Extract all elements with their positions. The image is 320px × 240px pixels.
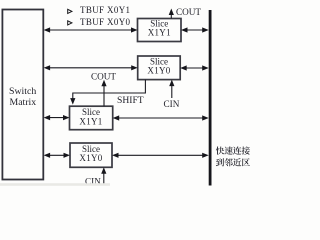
- svg-text:COUT: COUT: [91, 71, 116, 81]
- svg-text:SHIFT: SHIFT: [117, 95, 144, 106]
- svg-text:COUT: COUT: [176, 7, 201, 17]
- svg-text:TBUF X0Y0: TBUF X0Y0: [80, 17, 131, 27]
- svg-text:TBUF X0Y1: TBUF X0Y1: [80, 5, 130, 15]
- svg-text:X1Y1: X1Y1: [148, 28, 171, 38]
- svg-text:X1Y0: X1Y0: [79, 153, 102, 163]
- svg-text:Matrix: Matrix: [10, 97, 37, 108]
- svg-text:X1Y1: X1Y1: [79, 116, 102, 126]
- svg-text:Switch: Switch: [9, 86, 36, 97]
- svg-text:X1Y0: X1Y0: [147, 65, 170, 75]
- svg-text:CIN: CIN: [164, 99, 180, 109]
